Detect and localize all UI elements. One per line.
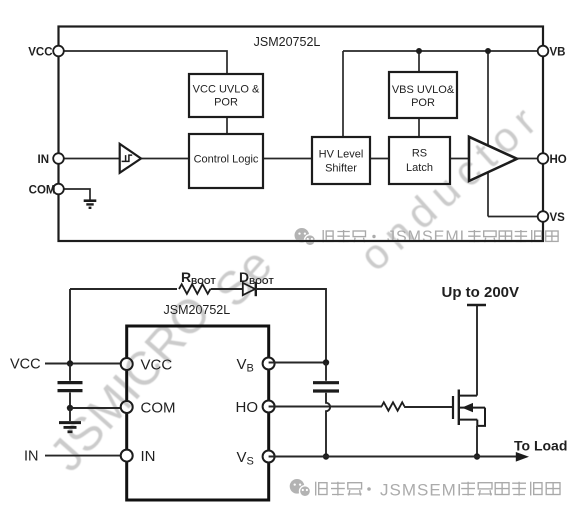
wire Control Logic to HV Level Shifter <box>263 158 312 160</box>
wire resistor to diode <box>211 288 243 290</box>
svg-text:Control Logic: Control Logic <box>194 154 259 166</box>
wire VB rail down to HV Level Shifter <box>342 51 344 137</box>
supply bar Up to 200V <box>442 284 520 305</box>
wire gate resistor to MOSFET gate <box>404 406 453 408</box>
svg-text:Shifter: Shifter <box>325 163 357 175</box>
MOSFET Q1 <box>453 390 485 426</box>
pin IN (IC) <box>121 448 156 465</box>
wire MOSFET source to VS net <box>476 426 478 457</box>
watermark diagonal onductor <box>350 93 550 280</box>
watermark wechat row 2 <box>290 479 560 500</box>
resistor RG (gate) <box>382 402 405 410</box>
pin IN (top) <box>38 153 64 166</box>
block VCC UVLO & POR <box>189 74 263 117</box>
label JSM20752L (top diagram title) <box>254 35 321 49</box>
junction bootstrap return on VS net <box>323 453 329 459</box>
svg-text:Latch: Latch <box>406 162 433 174</box>
pin VS (IC) <box>237 449 275 468</box>
watermark diagonal JSMICRO Se <box>39 238 282 481</box>
label IN (external) <box>24 449 39 465</box>
svg-text:onductor: onductor <box>350 93 550 280</box>
ground (bottom circuit) <box>59 408 81 432</box>
svg-text:HO: HO <box>236 399 259 416</box>
wire VS net to load with arrow <box>269 438 568 462</box>
svg-text:RS: RS <box>412 148 427 160</box>
wire diode to right corner <box>256 289 326 363</box>
schmitt trigger buffer <box>120 144 141 173</box>
block Control Logic <box>189 134 263 188</box>
wire bootstrap top rail left segment <box>70 288 177 290</box>
pin VB (IC) <box>237 356 275 375</box>
svg-text:VS: VS <box>550 212 566 224</box>
svg-text:VB: VB <box>550 47 566 59</box>
wire VS pin horizontal <box>488 216 543 218</box>
svg-text:IN: IN <box>38 154 50 166</box>
pin VCC (top) <box>28 46 64 59</box>
IC box U2 JSM20752L <box>127 326 269 500</box>
junction on VB rail above buffer <box>485 48 491 54</box>
resistor RBOOT <box>179 269 216 294</box>
wire VBS UVLO to RS Latch <box>418 118 420 137</box>
wire buffer to HO pin <box>517 158 544 160</box>
wire IN pin to schmitt buffer <box>59 158 121 160</box>
wire VB rail down to VS pin (behind buffer) <box>487 51 489 217</box>
label VCC (external) <box>10 357 41 373</box>
pin HO (IC) <box>236 399 275 416</box>
ground at COM pin <box>59 189 97 208</box>
junction at VCC node <box>67 360 73 366</box>
svg-text:COM: COM <box>29 185 56 197</box>
svg-text:JSMSEMI: JSMSEMI <box>380 481 463 500</box>
wire VB rail down to VBS UVLO block <box>418 51 420 72</box>
pin COM (top) <box>29 184 64 197</box>
wire IN label to IN pin <box>45 455 122 457</box>
svg-text:VCC: VCC <box>28 47 52 59</box>
wire VB pin to bootstrap node <box>269 362 326 364</box>
junction at VB node <box>323 359 329 365</box>
wire schmitt buffer to Control Logic <box>141 158 190 160</box>
svg-text:Up to 200V: Up to 200V <box>442 284 520 301</box>
svg-text:HV Level: HV Level <box>319 149 364 161</box>
svg-text:POR: POR <box>214 97 238 109</box>
IC boundary box U1 <box>59 27 544 242</box>
wire left vertical from RBOOT rail to VCC node <box>69 289 71 364</box>
wire MOSFET drain to supply <box>476 305 478 396</box>
diode DBOOT <box>239 269 274 296</box>
svg-text:IN: IN <box>141 448 156 465</box>
junction on VB rail above VBS UVLO <box>416 48 422 54</box>
wire VCC pin to VCC UVLO block <box>59 51 228 74</box>
wire COM node to COM pin <box>70 407 122 409</box>
capacitor C1 (VCC decoupling) <box>58 364 83 409</box>
pin VCC (IC) <box>121 357 173 374</box>
capacitor C2 (bootstrap) <box>313 363 339 392</box>
svg-text:VCC UVLO &: VCC UVLO & <box>193 84 260 96</box>
svg-text:JSM20752L: JSM20752L <box>254 35 321 49</box>
svg-text:POR: POR <box>411 97 435 109</box>
wire HO pin to gate resistor <box>269 406 382 408</box>
wire HV Level Shifter to RS Latch <box>370 158 389 160</box>
watermark wechat row 1 <box>295 228 559 246</box>
label JSM20752L (bottom) <box>164 303 231 317</box>
pin VS (top) <box>538 211 565 224</box>
block RS Latch <box>389 137 450 184</box>
wire VCC UVLO to Control Logic <box>226 117 228 134</box>
wire VB rail (top horizontal to VB pin) <box>343 50 543 52</box>
block VBS UVLO & POR <box>389 72 457 118</box>
wire RS Latch to output buffer <box>450 158 469 160</box>
svg-text:IN: IN <box>24 449 39 465</box>
svg-text:HO: HO <box>550 154 567 166</box>
pin HO (top) <box>538 153 567 166</box>
svg-text:VBS UVLO&: VBS UVLO& <box>392 84 455 96</box>
pin VB (top) <box>538 46 566 59</box>
wire bootstrap cap to VS net with hop over HO <box>326 393 330 457</box>
svg-text:VCC: VCC <box>10 357 41 373</box>
junction source on VS net <box>474 453 480 459</box>
wire VCC label to VCC pin <box>45 363 122 365</box>
block HV Level Shifter <box>312 137 370 184</box>
svg-text:To Load: To Load <box>514 438 567 454</box>
svg-text:JSMSEMI: JSMSEMI <box>387 229 465 246</box>
junction at COM node <box>67 405 73 411</box>
pin COM (IC) <box>121 400 176 417</box>
output driver buffer <box>469 137 517 181</box>
